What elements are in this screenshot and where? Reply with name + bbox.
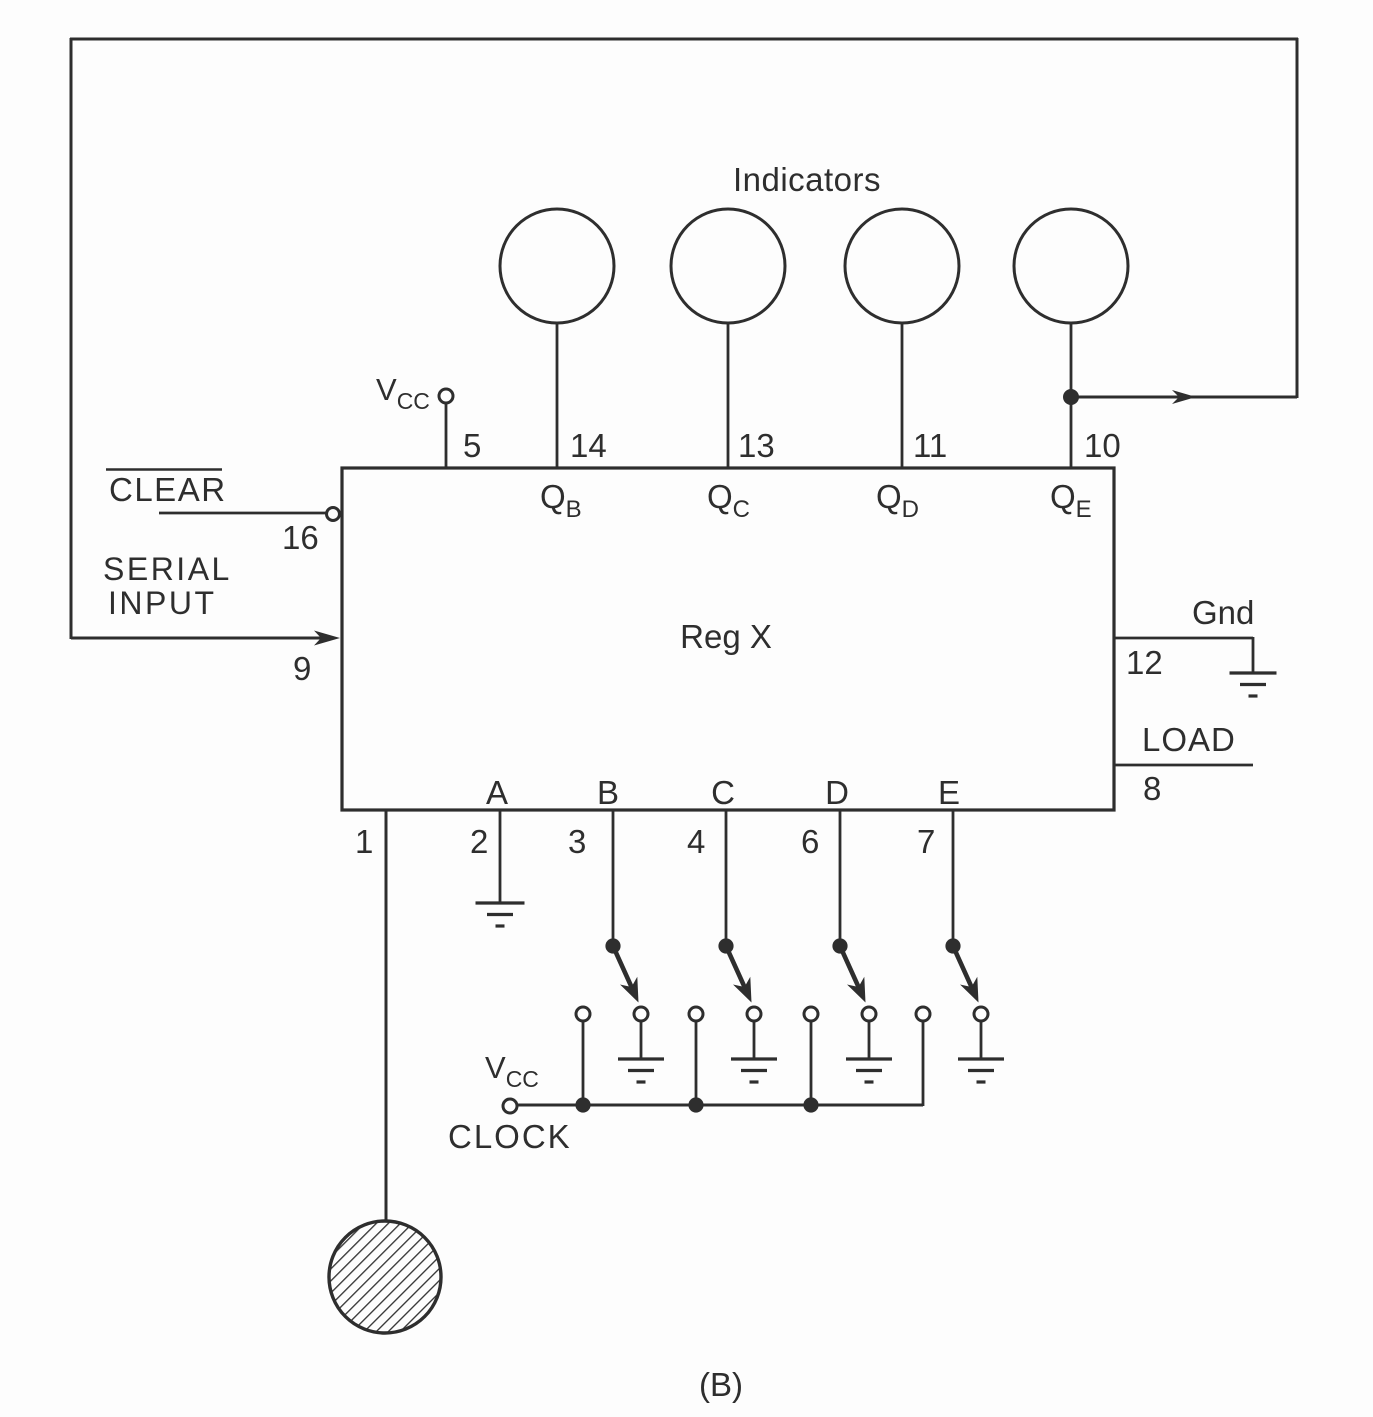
svg-text:SERIAL: SERIAL [103,551,232,587]
wire feedback left vertical [70,38,73,639]
pin 13 wire [727,323,730,468]
pin 16 wire CLEAR [159,512,326,515]
svg-text:D: D [825,774,849,811]
pin 9 wire serial input with arrow [71,631,340,646]
svg-text:8: 8 [1143,770,1161,807]
pin 4 wire [725,810,728,940]
ground symbol pin 12 [1230,671,1277,674]
label SERIAL INPUT [103,551,232,621]
svg-text:4: 4 [687,823,705,860]
label CLEAR with overline [106,470,227,509]
svg-text:12: 12 [1126,644,1163,681]
ground wire under switch S4 [980,1021,983,1059]
svg-text:B: B [597,774,619,811]
svg-text:CLOCK: CLOCK [448,1118,572,1155]
ground symbol under switch S1 [618,1057,664,1060]
indicator lamp DS2 [671,209,785,323]
Vcc clock terminal [503,1099,517,1113]
switch S1 pole and arrow [576,938,648,1021]
svg-text:(B): (B) [699,1366,743,1403]
wire feedback top [70,38,1298,41]
svg-text:LOAD: LOAD [1142,721,1236,758]
inversion bubble pin 16 [327,508,340,521]
svg-text:CLEAR: CLEAR [109,471,227,508]
svg-text:C: C [711,774,735,811]
pin 8 wire [1114,764,1253,767]
clock source (hatched circle) [329,1221,441,1333]
pin 3 wire [612,810,615,940]
switch S3 pole and arrow [804,938,876,1021]
svg-text:11: 11 [913,427,947,464]
pin 14 wire [556,323,559,468]
wire throw to clock bus (S3) [810,1021,813,1106]
indicator lamp DS4 [1014,209,1128,323]
pin 10 wire [1070,323,1073,468]
indicator lamp DS1 [500,209,614,323]
svg-text:2: 2 [470,823,488,860]
pin 6 wire [839,810,842,940]
svg-text:13: 13 [738,427,775,464]
svg-text:Indicators: Indicators [733,161,881,198]
ground wire under switch S1 [640,1021,643,1059]
svg-text:A: A [486,774,508,811]
ground symbol under switch S2 [731,1057,777,1060]
pin 7 wire [952,810,955,940]
pin 12 wire [1114,637,1253,673]
svg-text:INPUT: INPUT [108,585,217,621]
svg-text:3: 3 [568,823,586,860]
junction dot bus S2 [688,1097,703,1112]
ground symbol under switch S3 [846,1057,892,1060]
clock bus wire [517,1104,923,1107]
svg-text:5: 5 [463,427,481,464]
pin 2 wire [499,810,502,903]
pin 11 wire [901,323,904,468]
wire throw to clock bus (S2) [695,1021,698,1106]
svg-text:10: 10 [1084,427,1121,464]
IC U1 Reg X box [342,468,1114,810]
indicator lamp DS3 [845,209,959,323]
ground wire under switch S3 [868,1021,871,1059]
wire feedback right vertical [1296,38,1299,398]
svg-text:7: 7 [917,823,935,860]
pin 1 wire [385,810,388,1222]
svg-text:6: 6 [801,823,819,860]
ground wire under switch S2 [753,1021,756,1059]
junction dot bus S1 [575,1097,590,1112]
pin 5 wire [445,403,448,468]
wire throw to clock bus (S4) [922,1021,925,1106]
junction QE node [1063,389,1079,405]
switch S2 pole and arrow [689,938,761,1021]
junction dot bus S3 [803,1097,818,1112]
wire QE to feedback with arrow [1071,390,1297,404]
ground symbol under switch S4 [958,1057,1004,1060]
svg-text:9: 9 [293,650,311,687]
svg-text:Gnd: Gnd [1192,594,1254,631]
svg-text:14: 14 [570,427,607,464]
ground symbol pin 2 [476,901,525,904]
wire throw to clock bus (S1) [582,1021,585,1106]
svg-text:1: 1 [355,823,373,860]
Vcc terminal top [439,389,453,403]
svg-text:Reg X: Reg X [680,618,772,655]
svg-text:16: 16 [282,519,319,556]
switch S4 pole and arrow [916,938,988,1021]
svg-text:E: E [938,774,960,811]
